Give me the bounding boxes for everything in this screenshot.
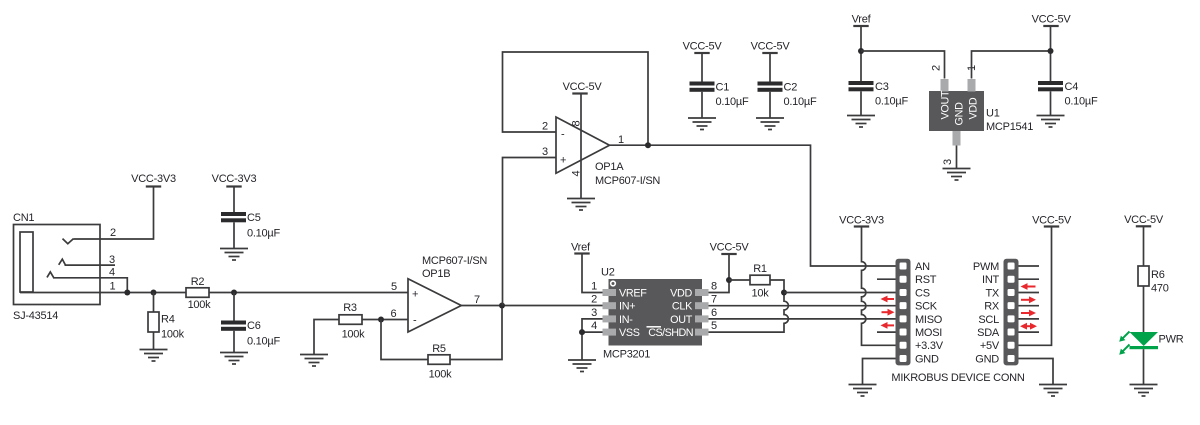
wire VCC-5V to U2 VDD	[709, 254, 730, 293]
U2 pin1 indicator	[611, 281, 616, 286]
svg-text:OP1A: OP1A	[595, 161, 624, 173]
wire VCC-5V through OP1A to ground	[580, 94, 582, 199]
svg-text:RST: RST	[915, 274, 937, 286]
red arrow MISO (left)	[881, 322, 895, 329]
ground under R3	[300, 355, 328, 367]
wire VCC-5V to R6	[1143, 226, 1145, 266]
svg-text:CN1: CN1	[13, 212, 34, 224]
U2 pin stubs right	[695, 289, 709, 296]
mikrobus right header pin pads	[1008, 263, 1015, 362]
IC U2 body	[609, 279, 703, 346]
wire VCC-5V to +5V	[1019, 227, 1052, 346]
CN1 pin 3 wire	[65, 264, 116, 266]
svg-text:VDD: VDD	[670, 288, 692, 300]
wire Vref to U1 pin2	[861, 51, 945, 79]
node junction C6 tap	[231, 290, 237, 296]
svg-text:-: -	[413, 315, 417, 327]
CN1 pin 3 contact	[59, 259, 66, 265]
svg-text:VCC-5V: VCC-5V	[1032, 14, 1072, 26]
node junction CS line	[781, 290, 787, 296]
svg-text:+3.3V: +3.3V	[915, 340, 944, 352]
wire Vref to U2 pin1	[582, 254, 603, 293]
op-amp OP1A	[556, 117, 610, 173]
wire OP1A feedback loop	[503, 52, 649, 145]
op-amp OP1B	[408, 279, 461, 332]
wire PWM stub	[1019, 265, 1040, 267]
node junction IN-/VSS	[579, 329, 585, 335]
wire U2 IN- to VSS	[582, 319, 603, 332]
resistor R6	[1138, 266, 1149, 286]
ground under U2	[568, 360, 596, 372]
svg-text:100k: 100k	[429, 369, 453, 381]
wire Vref down	[860, 26, 862, 81]
svg-text:MCP3201: MCP3201	[603, 349, 650, 361]
wire R6 to LED	[1143, 286, 1145, 332]
wire C3 bottom	[860, 91, 862, 115]
LED emission arrow 1	[1117, 329, 1132, 344]
capacitor C4	[1038, 81, 1063, 85]
svg-text:7: 7	[711, 294, 717, 306]
wire RST stub	[877, 278, 896, 280]
svg-text:C6: C6	[247, 320, 261, 332]
svg-text:100k: 100k	[342, 329, 366, 341]
svg-text:3: 3	[591, 307, 597, 319]
CN1 sleeve	[20, 232, 33, 292]
wire TX stub	[1019, 292, 1040, 294]
capacitor C5	[221, 212, 246, 216]
svg-text:VREF: VREF	[619, 288, 647, 300]
svg-text:VOUT: VOUT	[940, 90, 952, 119]
svg-text:2: 2	[931, 65, 943, 71]
wire VCC-3V3 down to +3.3V with hops	[862, 227, 897, 346]
svg-text:VCC-5V: VCC-5V	[1124, 214, 1164, 226]
wire C1 bottom	[701, 92, 703, 118]
wire OP1B pin6	[362, 319, 408, 321]
capacitor C1	[690, 82, 715, 86]
ground under U1	[943, 169, 971, 181]
resistor R3	[339, 315, 362, 325]
CN1 pin 4 contact	[47, 272, 54, 278]
svg-text:IN+: IN+	[619, 301, 635, 313]
ground under mikrobus left	[849, 385, 877, 397]
svg-text:R4: R4	[161, 314, 175, 326]
wire C2 bottom	[769, 92, 771, 118]
svg-text:VCC-5V: VCC-5V	[1032, 215, 1072, 227]
node junction R4 tap	[151, 290, 157, 296]
wire C5 bottom	[233, 222, 235, 248]
wire C4 bottom	[1050, 91, 1052, 115]
U2 pin stubs left	[603, 289, 617, 296]
wire U2 VSS to ground	[582, 332, 603, 359]
svg-text:6: 6	[391, 308, 397, 320]
CN1 pin 1 wire (main signal)	[20, 292, 186, 294]
CN1 pin 2 wire to VCC-3V3	[74, 186, 154, 239]
ground under mikrobus right	[1039, 385, 1067, 397]
wire feedback down from pin6 node	[381, 320, 428, 360]
svg-text:MIKROBUS DEVICE CONN: MIKROBUS DEVICE CONN	[891, 372, 1024, 384]
capacitor C6	[221, 321, 246, 325]
svg-text:INT: INT	[982, 274, 1000, 286]
svg-text:Vref: Vref	[571, 242, 591, 254]
red arrow RX (right)	[1021, 296, 1036, 303]
red arrow TX (left)	[1021, 283, 1036, 290]
svg-text:GND: GND	[915, 353, 939, 365]
svg-text:AN: AN	[915, 261, 930, 273]
ground under C4	[1037, 116, 1065, 128]
wire U1 pin1 to VCC-5V	[972, 51, 1051, 79]
wire VCC-5V to C1	[701, 53, 703, 82]
ground under C6	[220, 353, 248, 365]
svg-text:VCC-5V: VCC-5V	[751, 41, 791, 53]
svg-text:CLK: CLK	[672, 301, 693, 313]
wire GND right header	[1019, 359, 1054, 385]
wire SDA stub	[1019, 331, 1040, 333]
svg-text:C2: C2	[784, 82, 798, 94]
svg-text:0.10µF: 0.10µF	[784, 96, 817, 108]
wire R1 right down to CS/SHDN with hops	[709, 280, 789, 332]
wire C6 bottom	[233, 331, 235, 352]
svg-text:6: 6	[711, 307, 717, 319]
LED emission arrow 2	[1117, 342, 1132, 357]
ground under C1	[688, 118, 716, 130]
red arrow SCK (right)	[882, 309, 895, 316]
svg-text:0.10µF: 0.10µF	[247, 336, 280, 348]
svg-text:-: -	[561, 129, 565, 141]
wire VCC-5V down to C4	[1050, 26, 1052, 81]
IC U1 body	[929, 91, 984, 131]
wire CLK to SCK	[709, 305, 897, 307]
svg-text:+: +	[412, 289, 418, 301]
svg-text:2: 2	[542, 121, 548, 133]
svg-text:SCK: SCK	[915, 301, 938, 313]
CN1 pin 4 wire	[53, 278, 127, 293]
red arrow SCL (right)	[1021, 310, 1036, 317]
wire SCL stub	[1019, 318, 1040, 320]
svg-text:0.10µF: 0.10µF	[875, 96, 908, 108]
svg-text:U2: U2	[601, 267, 615, 279]
power VCC-3V3 bar (C5)	[226, 186, 241, 188]
svg-text:0.10µF: 0.10µF	[247, 228, 280, 240]
wire OUT to MISO	[709, 318, 897, 320]
resistor R1	[750, 275, 770, 285]
node junction OP1A output/feedback	[645, 142, 651, 148]
wire OP1B output	[461, 305, 602, 307]
svg-text:PWM: PWM	[973, 261, 999, 273]
node junction R1 tap	[726, 277, 732, 283]
wire RX stub	[1019, 305, 1040, 307]
wire OP1A output to AN	[610, 145, 897, 266]
svg-text:VCC-5V: VCC-5V	[563, 81, 603, 93]
svg-text:RX: RX	[984, 301, 1000, 313]
svg-text:1: 1	[110, 281, 116, 293]
svg-text:IN-: IN-	[619, 314, 633, 326]
wire R3 left to ground	[314, 320, 339, 355]
svg-text:OP1B: OP1B	[422, 268, 450, 280]
svg-text:4: 4	[109, 267, 115, 279]
svg-text:R5: R5	[432, 343, 446, 355]
wire OP1A pin3 from output node	[503, 158, 557, 306]
svg-text:R1: R1	[753, 263, 767, 275]
node junction Vref	[858, 48, 864, 54]
wire C6 top	[233, 293, 235, 321]
wire R5 right up to output node	[450, 306, 502, 360]
connector CN1 outline	[14, 225, 101, 305]
node junction pin4/pin1	[124, 290, 130, 296]
svg-text:VCC-3V3: VCC-3V3	[131, 173, 176, 185]
node junction pin6/R3/R5	[378, 317, 384, 323]
svg-text:C1: C1	[716, 82, 730, 94]
svg-text:100k: 100k	[161, 329, 185, 341]
svg-text:C3: C3	[875, 81, 889, 93]
mikrobus left header body	[896, 259, 911, 366]
wire R4 top	[153, 293, 155, 313]
resistor R5	[428, 355, 450, 365]
svg-text:5: 5	[391, 281, 397, 293]
svg-text:GND: GND	[954, 102, 966, 126]
svg-text:VDD: VDD	[968, 97, 980, 119]
svg-text:5: 5	[711, 320, 717, 332]
wire INT stub	[1019, 278, 1040, 280]
wire VCC-5V to C2	[769, 53, 771, 82]
svg-text:+: +	[560, 155, 566, 167]
ground under C3	[847, 116, 875, 128]
wire R2 to C6 node and OP1B	[209, 292, 408, 294]
U2 CS overline	[647, 326, 662, 328]
svg-text:VCC-3V3: VCC-3V3	[212, 173, 257, 185]
ground under C5	[220, 249, 248, 261]
svg-text:7: 7	[474, 294, 480, 306]
svg-text:0.10µF: 0.10µF	[716, 96, 749, 108]
svg-text:OUT: OUT	[670, 314, 693, 326]
svg-text:R6: R6	[1151, 269, 1165, 281]
wire LED to ground	[1143, 349, 1145, 384]
svg-text:4: 4	[591, 320, 597, 332]
svg-text:100k: 100k	[188, 299, 212, 311]
svg-text:2: 2	[110, 227, 116, 239]
svg-text:MCP1541: MCP1541	[986, 121, 1033, 133]
svg-text:1: 1	[591, 281, 597, 293]
svg-text:3: 3	[942, 159, 954, 165]
svg-text:1: 1	[618, 134, 624, 146]
wire CS to mikrobus	[784, 292, 896, 294]
svg-text:PWR: PWR	[1159, 334, 1184, 346]
svg-text:VSS: VSS	[619, 327, 640, 339]
svg-text:C5: C5	[247, 212, 261, 224]
resistor R4	[148, 312, 159, 332]
wire VCC-3V3 to C5	[233, 187, 235, 213]
svg-text:MISO: MISO	[915, 314, 943, 326]
svg-text:3: 3	[542, 146, 548, 158]
node junction C4	[1048, 48, 1054, 54]
svg-text:VCC-5V: VCC-5V	[683, 41, 723, 53]
mikrobus left header pin pads	[900, 263, 907, 362]
svg-text:U1: U1	[986, 108, 1000, 120]
svg-text:SCL: SCL	[978, 314, 999, 326]
svg-text:GND: GND	[975, 353, 999, 365]
svg-text:0.10µF: 0.10µF	[1065, 96, 1098, 108]
LED PWR cathode bar	[1130, 346, 1159, 349]
svg-text:3: 3	[109, 254, 115, 266]
svg-text:R2: R2	[191, 276, 205, 288]
svg-text:R3: R3	[343, 302, 357, 314]
svg-text:SDA: SDA	[977, 327, 1000, 339]
wire MOSI stub	[877, 331, 896, 333]
capacitor C2	[758, 82, 783, 86]
red arrow SDA (both)	[1020, 323, 1037, 330]
wire U1 pin3 to ground	[956, 146, 958, 169]
svg-text:VCC-3V3: VCC-3V3	[839, 215, 884, 227]
LED PWR anode triangle	[1130, 332, 1159, 346]
CN1 pin 2 contact	[63, 239, 74, 244]
svg-text:VCC-5V: VCC-5V	[710, 242, 750, 254]
svg-text:C4: C4	[1065, 81, 1079, 93]
U1 pin stubs	[941, 79, 949, 92]
svg-text:470: 470	[1151, 283, 1169, 295]
svg-text:MCP607-I/SN: MCP607-I/SN	[595, 175, 660, 187]
svg-text:SJ-43514: SJ-43514	[13, 310, 58, 322]
svg-text:Vref: Vref	[852, 14, 872, 26]
red arrow CS (left)	[881, 296, 895, 303]
mikrobus right header body	[1004, 259, 1019, 366]
capacitor C3	[849, 81, 874, 85]
svg-text:8: 8	[711, 281, 717, 293]
svg-text:CS/SHDN: CS/SHDN	[648, 327, 693, 339]
svg-text:MCP607-I/SN: MCP607-I/SN	[422, 255, 487, 267]
ground under OP1A	[567, 199, 595, 211]
wire R4 bottom	[153, 332, 155, 349]
ground under R4	[140, 350, 168, 362]
wire GND left header	[863, 359, 897, 385]
svg-text:MOSI: MOSI	[915, 327, 942, 339]
svg-text:+5V: +5V	[980, 340, 1000, 352]
wire R1 left	[729, 279, 750, 281]
node junction OP1B output	[499, 303, 505, 309]
svg-text:2: 2	[591, 294, 597, 306]
ground under LED	[1130, 385, 1158, 397]
svg-text:10k: 10k	[752, 288, 770, 300]
resistor R2	[186, 288, 209, 298]
svg-text:TX: TX	[985, 287, 999, 299]
ground under C2	[756, 118, 784, 130]
power VCC-3V3 bar	[146, 186, 161, 188]
svg-text:CS: CS	[915, 287, 930, 299]
